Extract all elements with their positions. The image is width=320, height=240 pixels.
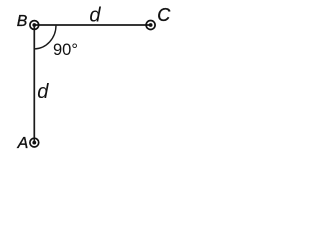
- svg-text:A: A: [17, 135, 29, 152]
- angle arc 90 degrees at B: [34, 25, 56, 49]
- node B marker: [30, 21, 39, 30]
- wire: segment B to C: [34, 24, 150, 26]
- node A marker: [30, 138, 39, 147]
- svg-text:d: d: [37, 81, 49, 103]
- svg-text:d: d: [89, 4, 101, 26]
- node C marker: [146, 21, 155, 30]
- wire: segment B to A: [33, 25, 35, 143]
- svg-text:C: C: [157, 5, 171, 25]
- svg-text:90°: 90°: [53, 41, 78, 59]
- svg-text:B: B: [17, 13, 28, 30]
